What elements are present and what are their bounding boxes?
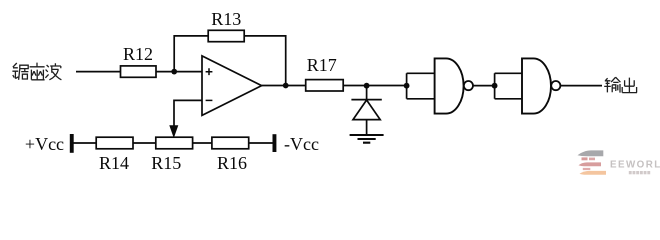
svg-text:EEWORLD: EEWORLD: [610, 159, 660, 170]
resistor R12: [121, 66, 157, 77]
svg-text:R12: R12: [123, 44, 153, 64]
gate U2A bubble: [464, 81, 473, 90]
node NAND2 input junction dot: [492, 83, 498, 89]
wire R12 to op-amp + input: [156, 71, 202, 73]
resistor R17: [306, 80, 344, 91]
wire R16 to -Vcc: [249, 142, 273, 144]
gate U2B nand: [522, 58, 551, 113]
op-amp + symbol: [206, 68, 213, 75]
svg-text:-Vcc: -Vcc: [284, 134, 319, 154]
svg-text:R15: R15: [151, 153, 181, 173]
wire +Vcc to R14: [74, 142, 97, 144]
svg-text:R16: R16: [217, 153, 247, 173]
diode D1: [351, 86, 381, 136]
op-amp U1: [202, 56, 262, 116]
wire output: [561, 85, 603, 87]
wire NAND1 input bracket: [407, 73, 435, 99]
node NAND1 input junction dot: [404, 83, 410, 89]
node diode junction dot: [364, 83, 370, 89]
resistor R13: [208, 30, 244, 41]
wire feedback loop: [174, 36, 286, 86]
svg-text:R17: R17: [307, 55, 337, 75]
ground: [350, 135, 384, 143]
gate U2B bubble: [551, 81, 560, 90]
resistor R14: [96, 137, 133, 149]
wire NAND2 input bracket: [495, 73, 522, 99]
node 锯齿波 input label: [12, 63, 61, 80]
node output junction dot: [283, 83, 289, 89]
node junction at + input: [171, 69, 177, 75]
wire - input to wiper: [174, 100, 202, 127]
svg-text:R14: R14: [99, 153, 129, 173]
power +Vcc terminal bar: [70, 134, 74, 153]
node 输出 output label: [604, 77, 637, 92]
op-amp - symbol: [206, 99, 213, 101]
wire input: [76, 71, 121, 73]
wire wiper arrow onto R15: [170, 126, 178, 137]
wire R17 to NAND1: [343, 85, 406, 87]
wire R15 to R16: [193, 142, 212, 144]
svg-text:R13: R13: [211, 9, 241, 29]
wire R14 to R15: [133, 142, 156, 144]
resistor R16: [212, 137, 249, 149]
gate U2A nand: [435, 58, 464, 113]
EEWORLD watermark logo: [578, 150, 660, 174]
wire op-amp output: [262, 85, 306, 87]
wire between gates: [473, 85, 495, 87]
power -Vcc terminal bar: [273, 134, 277, 152]
resistor R15 potentiometer: [156, 137, 193, 149]
svg-text:+Vcc: +Vcc: [25, 134, 64, 154]
